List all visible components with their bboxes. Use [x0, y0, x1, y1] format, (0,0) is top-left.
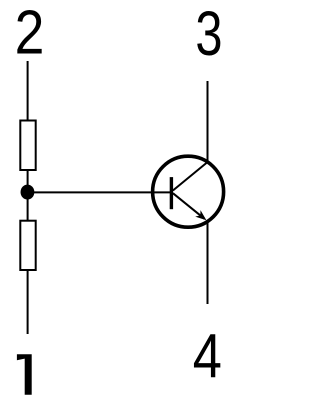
wire: pin 2 to upper resistor — [27, 61, 29, 121]
transistor circle — [153, 156, 224, 227]
transistor collector line — [173, 162, 208, 191]
pin label 1 — [17, 354, 32, 394]
wire: lower resistor to pin 1 — [27, 270, 29, 334]
transistor base bar — [170, 177, 173, 209]
wire: node to lower resistor — [27, 192, 29, 221]
transistor emitter line — [173, 193, 205, 219]
svg-text:2: 2 — [15, 0, 45, 68]
svg-text:3: 3 — [195, 0, 222, 68]
svg-text:4: 4 — [193, 322, 222, 391]
wire: collector to pin 3 — [207, 81, 209, 164]
resistor (upper) — [20, 121, 35, 171]
wire: emitter to pin 4 — [207, 221, 209, 305]
node: junction dot — [21, 185, 35, 200]
transistor Q1 (NPN) — [153, 156, 224, 227]
resistor (lower) — [20, 221, 35, 270]
wire: base wire from node to transistor — [28, 191, 172, 193]
transistor emitter arrowhead — [195, 210, 206, 220]
wire: upper resistor to node — [27, 170, 29, 192]
